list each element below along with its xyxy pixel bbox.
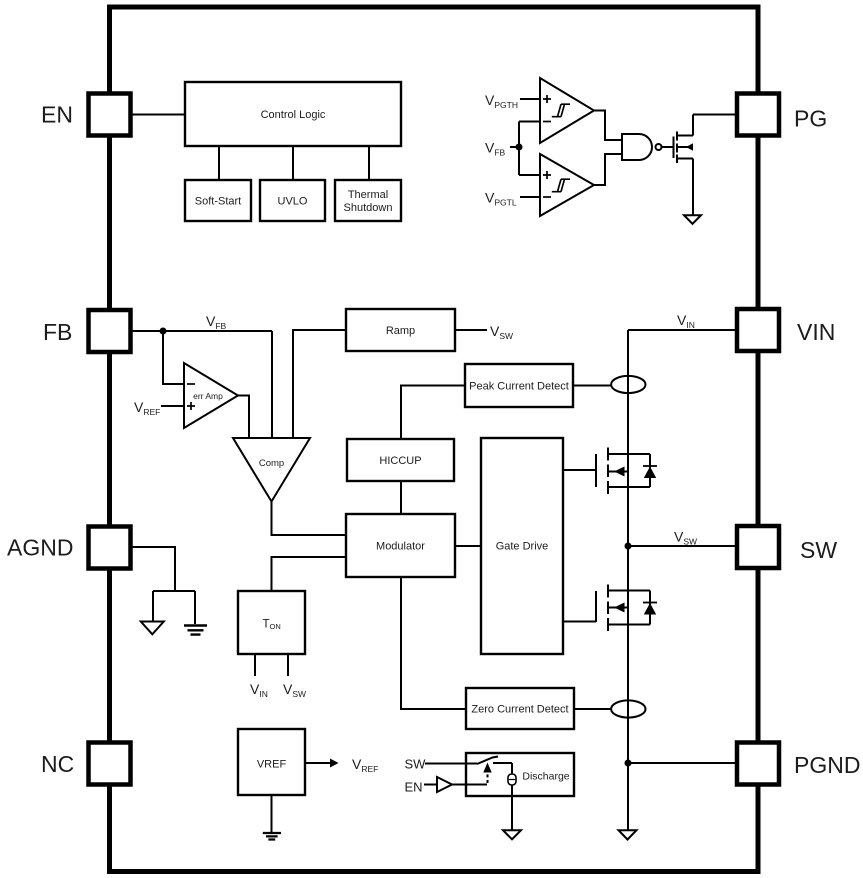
svg-text:Control Logic: Control Logic — [261, 109, 326, 121]
svg-text:Discharge: Discharge — [522, 771, 569, 783]
svg-text:UVLO: UVLO — [278, 196, 308, 208]
svg-text:VIN: VIN — [797, 319, 835, 345]
svg-text:NC: NC — [41, 751, 74, 777]
svg-text:TON: TON — [263, 619, 281, 632]
svg-text:VFB: VFB — [485, 140, 506, 158]
svg-text:VIN: VIN — [250, 681, 268, 699]
svg-text:HICCUP: HICCUP — [379, 455, 421, 467]
svg-text:PG: PG — [794, 106, 827, 132]
svg-text:VPGTH: VPGTH — [485, 92, 518, 110]
svg-text:EN: EN — [41, 102, 73, 128]
svg-text:Soft-Start: Soft-Start — [195, 196, 241, 208]
svg-text:SW: SW — [405, 757, 427, 772]
svg-text:err Amp: err Amp — [193, 391, 223, 401]
svg-text:Peak Current Detect: Peak Current Detect — [469, 381, 569, 393]
svg-text:VREF: VREF — [257, 759, 287, 771]
svg-text:VPGTL: VPGTL — [485, 190, 517, 208]
svg-text:VSW: VSW — [674, 529, 697, 547]
svg-text:Gate Drive: Gate Drive — [496, 541, 549, 553]
svg-text:VSW: VSW — [490, 323, 513, 341]
svg-text:AGND: AGND — [7, 535, 73, 561]
svg-text:VIN: VIN — [677, 312, 695, 330]
svg-text:Comp: Comp — [259, 458, 284, 469]
svg-text:VSW: VSW — [283, 681, 306, 699]
svg-text:VFB: VFB — [206, 313, 227, 331]
svg-text:SW: SW — [800, 537, 837, 563]
svg-text:Shutdown: Shutdown — [344, 202, 393, 214]
svg-text:EN: EN — [405, 780, 423, 795]
svg-text:Ramp: Ramp — [386, 325, 415, 337]
svg-text:VREF: VREF — [134, 399, 160, 417]
svg-text:FB: FB — [43, 319, 72, 345]
svg-text:Thermal: Thermal — [348, 189, 388, 201]
svg-text:VREF: VREF — [352, 756, 378, 774]
svg-text:Zero Current Detect: Zero Current Detect — [471, 704, 568, 716]
svg-text:PGND: PGND — [794, 752, 860, 778]
svg-text:Modulator: Modulator — [376, 541, 425, 553]
